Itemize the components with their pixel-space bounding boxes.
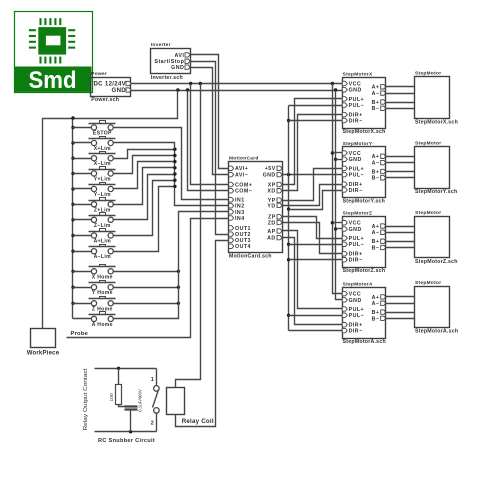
svg-text:DIR−: DIR−: [349, 118, 363, 124]
svg-text:StepMotorX.sch: StepMotorX.sch: [415, 119, 458, 125]
svg-text:StepMotor: StepMotor: [415, 71, 441, 77]
svg-text:XP: XP: [268, 182, 276, 188]
svg-text:StepMotorA: StepMotorA: [343, 281, 373, 287]
svg-text:Power: Power: [91, 71, 107, 77]
svg-text:PUL−: PUL−: [349, 242, 365, 248]
svg-text:Inverter: Inverter: [151, 42, 171, 48]
svg-text:DIR−: DIR−: [349, 188, 363, 194]
svg-text:VCC: VCC: [349, 292, 362, 298]
svg-text:A−: A−: [372, 230, 380, 236]
svg-text:Smd: Smd: [29, 67, 77, 94]
svg-text:B−: B−: [372, 176, 380, 182]
svg-text:PUL+: PUL+: [349, 307, 365, 313]
svg-text:DIR−: DIR−: [349, 258, 363, 264]
svg-text:WorkPiece: WorkPiece: [27, 351, 60, 357]
svg-text:B−: B−: [372, 106, 380, 112]
svg-text:StepMotorZ.sch: StepMotorZ.sch: [343, 268, 386, 274]
svg-text:OUT3: OUT3: [235, 238, 251, 244]
svg-text:VCC: VCC: [349, 151, 362, 157]
svg-text:A−Lim: A−Lim: [94, 254, 112, 260]
svg-text:IN3: IN3: [235, 210, 245, 216]
svg-text:Z−Lim: Z−Lim: [94, 223, 111, 229]
svg-text:PUL−: PUL−: [349, 103, 365, 109]
svg-text:A+: A+: [372, 295, 380, 301]
svg-text:PUL−: PUL−: [349, 313, 365, 319]
svg-text:OUT1: OUT1: [235, 226, 251, 232]
svg-text:AVI+: AVI+: [235, 166, 248, 172]
svg-text:StepMotor: StepMotor: [415, 210, 441, 216]
svg-text:A Home: A Home: [92, 322, 113, 328]
svg-text:AVI: AVI: [175, 53, 185, 59]
svg-text:MotionCard: MotionCard: [229, 155, 259, 161]
svg-text:Y Home: Y Home: [92, 290, 113, 296]
svg-text:+5V: +5V: [265, 166, 276, 172]
svg-text:1: 1: [151, 377, 154, 383]
svg-text:B−: B−: [372, 316, 380, 322]
svg-text:IN4: IN4: [235, 216, 245, 222]
svg-text:COM+: COM+: [235, 182, 252, 188]
svg-text:COM−: COM−: [235, 189, 252, 195]
svg-text:ESTOP: ESTOP: [93, 131, 112, 137]
svg-text:IN2: IN2: [235, 204, 245, 210]
svg-text:B+: B+: [372, 239, 380, 245]
svg-text:StepMotorX: StepMotorX: [343, 71, 373, 77]
svg-text:AP: AP: [267, 229, 275, 235]
svg-text:A+: A+: [372, 154, 380, 160]
svg-text:X Home: X Home: [92, 274, 113, 280]
svg-text:GND: GND: [349, 88, 362, 94]
svg-text:MotionCard.sch: MotionCard.sch: [229, 254, 272, 260]
svg-text:GND: GND: [349, 157, 362, 163]
svg-text:B+: B+: [372, 310, 380, 316]
svg-text:GND: GND: [171, 65, 184, 71]
svg-text:2: 2: [151, 421, 154, 427]
svg-text:StepMotorA.sch: StepMotorA.sch: [415, 329, 458, 335]
svg-text:OUT2: OUT2: [235, 232, 251, 238]
svg-text:StepMotorY.sch: StepMotorY.sch: [415, 189, 457, 195]
svg-text:PUL+: PUL+: [349, 97, 365, 103]
svg-text:A+Lim: A+Lim: [94, 239, 112, 245]
svg-text:StepMotorY: StepMotorY: [343, 141, 373, 147]
svg-text:Probe: Probe: [71, 331, 89, 337]
svg-text:Y+Lim: Y+Lim: [94, 177, 111, 183]
svg-text:A+: A+: [372, 85, 380, 91]
svg-text:DIR−: DIR−: [349, 329, 363, 335]
svg-text:GND: GND: [263, 173, 276, 179]
svg-text:Relay Output Contact: Relay Output Contact: [83, 368, 89, 431]
svg-text:AD: AD: [267, 236, 276, 242]
svg-text:B+: B+: [372, 100, 380, 106]
svg-text:VCC: VCC: [349, 221, 362, 227]
svg-text:GND: GND: [112, 87, 127, 94]
svg-text:A−: A−: [372, 91, 380, 97]
svg-text:AVI−: AVI−: [235, 173, 248, 179]
svg-text:XD: XD: [267, 189, 275, 195]
svg-text:Power.sch: Power.sch: [91, 97, 119, 103]
svg-text:PUL+: PUL+: [349, 166, 365, 172]
svg-text:StepMotor: StepMotor: [415, 280, 441, 286]
svg-text:ZD: ZD: [268, 220, 276, 226]
svg-text:PUL+: PUL+: [349, 236, 365, 242]
svg-text:OUT4: OUT4: [235, 244, 251, 250]
svg-text:B−: B−: [372, 245, 380, 251]
svg-text:Inverter.sch: Inverter.sch: [151, 75, 183, 81]
svg-text:StepMotorX.sch: StepMotorX.sch: [343, 129, 386, 135]
svg-text:GND: GND: [349, 227, 362, 233]
svg-text:StepMotorZ: StepMotorZ: [343, 211, 373, 217]
svg-text:Relay Coil: Relay Coil: [182, 418, 214, 425]
svg-text:StepMotorY.sch: StepMotorY.sch: [343, 199, 385, 205]
svg-text:PUL−: PUL−: [349, 173, 365, 179]
svg-text:0.1uF/400V: 0.1uF/400V: [138, 389, 143, 412]
svg-text:A−: A−: [372, 301, 380, 307]
svg-text:YD: YD: [267, 203, 275, 209]
svg-text:StepMotorA.sch: StepMotorA.sch: [343, 339, 386, 345]
svg-text:B+: B+: [372, 169, 380, 175]
svg-text:RC Snubber Circuit: RC Snubber Circuit: [98, 438, 155, 444]
svg-text:A−: A−: [372, 161, 380, 167]
svg-text:A+: A+: [372, 224, 380, 230]
svg-text:VCC: VCC: [349, 81, 362, 87]
svg-text:StepMotorZ.sch: StepMotorZ.sch: [415, 259, 458, 265]
svg-text:StepMotor: StepMotor: [415, 140, 441, 146]
svg-text:GND: GND: [349, 298, 362, 304]
svg-text:100: 100: [109, 393, 115, 401]
